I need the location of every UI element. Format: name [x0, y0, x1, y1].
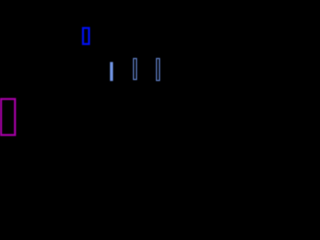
blue outlined rectangle [82, 27, 89, 44]
solid light-blue bar [110, 62, 113, 81]
outlined light-blue bar 2 [156, 58, 160, 81]
outlined light-blue bar 1 [133, 58, 137, 81]
magenta outlined rectangle [0, 98, 16, 136]
